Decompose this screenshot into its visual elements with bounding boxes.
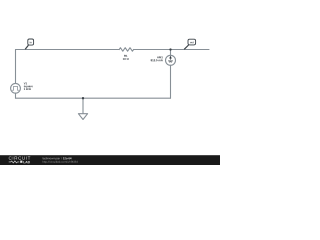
watermark title bold bbox=[63, 157, 72, 159]
wire V1 bottom stub bbox=[15, 93, 17, 98]
logo word LAB bbox=[23, 161, 29, 163]
probe out flag bbox=[188, 39, 196, 45]
resistor R1 bbox=[119, 48, 133, 52]
ammeter gauge arc bbox=[169, 61, 172, 63]
voltage source V1 bbox=[11, 83, 21, 93]
probe out text bbox=[190, 42, 194, 44]
ground stem wire bbox=[82, 98, 84, 114]
probe out pointer bbox=[184, 45, 188, 49]
label R1 bbox=[124, 55, 127, 57]
wire top horizontal right segment bbox=[134, 49, 209, 51]
label V1 type square bbox=[24, 86, 33, 88]
ammeter arrow stem bbox=[170, 58, 172, 59]
junction node at ammeter branch bbox=[169, 48, 171, 50]
wire ammeter bottom stub bbox=[170, 65, 172, 98]
watermark bar bbox=[0, 155, 220, 165]
label AM1 bbox=[157, 56, 163, 58]
watermark url line bbox=[42, 161, 77, 164]
ammeter arrow head bbox=[169, 56, 172, 59]
wire top horizontal left segment bbox=[16, 49, 120, 51]
label AM1 reading 812.5 mA bbox=[151, 59, 163, 61]
label R1 value 16 ohm bbox=[123, 58, 129, 60]
wire bottom horizontal bbox=[16, 97, 171, 99]
wire ammeter top stub bbox=[170, 50, 172, 56]
ammeter gauge line bbox=[168, 60, 173, 62]
watermark username line bbox=[42, 157, 61, 159]
ground symbol bbox=[78, 114, 87, 120]
logo zigzag bbox=[9, 161, 20, 163]
logo word CIRCUIT (width 21.7) bbox=[9, 156, 31, 159]
wire left vertical bbox=[15, 50, 17, 84]
label V1 bbox=[24, 82, 27, 84]
label V1 freq 1 kHz bbox=[24, 88, 31, 90]
probe in text bbox=[30, 41, 32, 43]
logo square bullet bbox=[20, 161, 22, 163]
V1 square-wave glyph bbox=[12, 86, 18, 90]
probe in flag bbox=[28, 39, 34, 45]
junction node at ground bbox=[82, 97, 84, 99]
probe in pointer bbox=[25, 45, 28, 49]
ammeter AM1 bbox=[166, 55, 176, 65]
